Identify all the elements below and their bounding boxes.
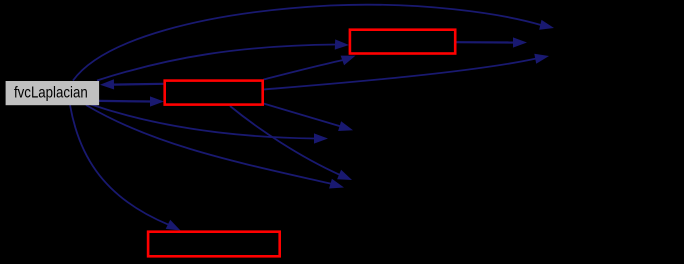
node: bottom red box (truncated node) [148, 232, 280, 257]
wire: middle red box back to fvcLaplacian [113, 83, 163, 86]
arrowhead: into top-right invisible node left edge [513, 37, 527, 47]
wire: middle red box to top-right invisible node (bottom edge) [264, 59, 537, 90]
wire: fvcLaplacian to top red box (left edge) [97, 45, 336, 81]
wire: fvcLaplacian to middle-right invisible node (left edge) [91, 105, 315, 139]
arrowhead: into middle-right invisible node left edge [314, 133, 328, 143]
arrowhead: into top-right invisible node bottom edge [534, 54, 549, 64]
arrowhead: into bottom red box top edge [166, 220, 181, 231]
wire: fvcLaplacian to bottom red box [70, 105, 169, 225]
wire: fvcLaplacian to top-right invisible node (long top sweep) [73, 5, 541, 81]
arrowhead: into middle-right invisible node top edge [338, 121, 353, 131]
wire: fvcLaplacian to lower-right invisible node (left edge) [86, 105, 332, 184]
arrowhead: into top-right invisible node (top edge) [539, 20, 554, 30]
arrowhead: into fvcLaplacian right edge [100, 79, 114, 89]
node fvcLaplacian (current node, gray) [6, 81, 100, 105]
arrowhead: into top red box bottom edge [341, 56, 356, 66]
wire: middle red box to middle-right invisible node (top edge) [264, 104, 341, 127]
wire: fvcLaplacian to middle red box (horizontal) [99, 100, 151, 103]
wire: top red box to top-right invisible node (horizontal) [456, 41, 514, 43]
wire: middle red box to lower-right invisible node (top edge) [230, 106, 340, 175]
wire: middle red box to top red box (bottom edge) [264, 60, 344, 80]
arrowhead: into lower-right invisible node top edge [337, 170, 352, 180]
svg-text:fvcLaplacian: fvcLaplacian [14, 85, 88, 102]
node: top red box (truncated node) [350, 30, 455, 54]
arrowhead: into top red box left edge [335, 39, 349, 49]
arrowhead: into middle red box left edge [150, 96, 164, 106]
arrowhead: into lower-right invisible node left edge [329, 179, 344, 189]
node: middle red box (truncated node) [165, 81, 263, 105]
